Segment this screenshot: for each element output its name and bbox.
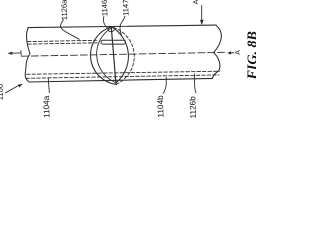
- lumen 1126a dashed pair (upper): [28, 40, 97, 41]
- left axis arrow shaft: [12, 52, 20, 54]
- balloon outer right wall (dashed): [114, 28, 135, 85]
- arrowhead left axis: [7, 52, 12, 55]
- leader 1126b: [195, 74, 196, 93]
- leader arrow 1100 shaft: [6, 86, 19, 93]
- svg-text:1126a: 1126a: [60, 0, 70, 20]
- svg-text:1100: 1100: [0, 84, 5, 101]
- centerline dash-dot axis: [22, 52, 225, 56]
- lumen 1126a dashed pair (lower): [28, 43, 99, 44]
- leader 1126a: [60, 20, 79, 40]
- arrowhead section A down: [200, 20, 204, 25]
- tube bottom edge: [29, 78, 213, 82]
- svg-text:1126b: 1126b: [188, 96, 198, 119]
- balloon inner left wall: [97, 28, 116, 83]
- leader 1146: [103, 17, 108, 29]
- leader 1147: [120, 16, 125, 35]
- right axis arrow shaft: [231, 52, 234, 54]
- arrowhead right axis left-pointing: [227, 51, 231, 54]
- leader 1104b: [163, 77, 166, 93]
- lumen 1126b dashed pair (lower): [26, 75, 219, 78]
- svg-text:1147: 1147: [121, 0, 130, 16]
- svg-text:A: A: [235, 50, 242, 55]
- arrowhead 1100: [18, 84, 23, 88]
- svg-text:1104a: 1104a: [42, 95, 52, 118]
- svg-text:1146: 1146: [100, 0, 109, 16]
- balloon inner right wall: [112, 27, 128, 83]
- balloon outer left wall: [91, 27, 117, 85]
- svg-text:A: A: [193, 0, 200, 5]
- left axis tick: [20, 51, 22, 56]
- left break line: [25, 28, 30, 82]
- tube top edge: [28, 25, 216, 28]
- section line A (top): [201, 5, 203, 20]
- window 1147 rounded rect: [101, 40, 126, 44]
- svg-text:FIG. 8B: FIG. 8B: [245, 31, 256, 80]
- lumen 1126b dashed pair (upper): [27, 71, 220, 74]
- transducer shaft: [111, 27, 116, 85]
- right break line: [213, 25, 222, 78]
- leader 1104a: [48, 78, 49, 93]
- svg-text:1104b: 1104b: [156, 95, 166, 118]
- tip loop: [108, 27, 114, 32]
